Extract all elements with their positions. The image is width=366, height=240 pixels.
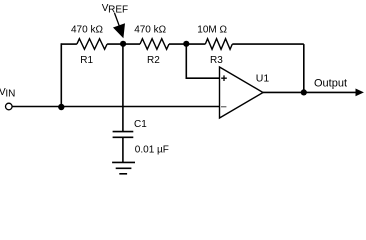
U1 designator label xyxy=(256,72,270,84)
R3 value label 10M Ohm xyxy=(197,24,227,35)
wire top rail left segment xyxy=(61,43,77,45)
capacitor C1 xyxy=(113,132,134,162)
node C junction VIN rail xyxy=(58,104,64,110)
wire output xyxy=(263,91,357,93)
R1 value label 470 kOhm xyxy=(71,24,103,35)
svg-text:Output: Output xyxy=(314,77,347,89)
svg-text:REF: REF xyxy=(108,5,128,16)
wire node B down to op-amp plus input xyxy=(186,43,219,78)
svg-text:IN: IN xyxy=(5,89,15,100)
svg-text:R2: R2 xyxy=(147,55,160,66)
C1 designator label xyxy=(134,119,147,130)
resistor R3 xyxy=(205,39,232,50)
wire R1 to R2 xyxy=(107,43,140,45)
svg-text:R3: R3 xyxy=(210,55,223,66)
R1 designator label xyxy=(80,55,93,66)
VREF pointer arrow xyxy=(113,13,125,38)
R2 designator label xyxy=(147,55,160,66)
R2 value label 470 kOhm xyxy=(134,24,166,35)
resistor R2 xyxy=(140,39,169,50)
label Output xyxy=(314,77,347,89)
node A junction R1-R2 (VREF node) xyxy=(120,41,126,47)
svg-text:R1: R1 xyxy=(80,55,93,66)
svg-text:10M Ω: 10M Ω xyxy=(197,24,227,35)
ground xyxy=(112,162,135,173)
resistor R1 xyxy=(77,39,107,50)
wire feedback vertical xyxy=(303,44,305,92)
wire middle vertical to C1 xyxy=(122,43,124,131)
svg-text:U1: U1 xyxy=(256,72,270,84)
wire VIN rail xyxy=(12,106,219,108)
input terminal VIN circle xyxy=(6,103,13,110)
output arrowhead xyxy=(356,89,364,97)
wire R2 to R3 xyxy=(169,43,205,45)
C1 value label 0.01 uF xyxy=(135,145,169,156)
svg-text:C1: C1 xyxy=(134,119,147,130)
node B junction R2-R3 xyxy=(183,41,189,47)
svg-text:470 kΩ: 470 kΩ xyxy=(134,24,166,35)
label VIN xyxy=(0,87,15,100)
svg-text:470 kΩ: 470 kΩ xyxy=(71,24,103,35)
op-amp U1 xyxy=(220,67,264,118)
label VREF xyxy=(102,3,128,16)
svg-text:0.01 µF: 0.01 µF xyxy=(135,145,169,156)
R3 designator label xyxy=(210,55,223,66)
wire left vertical xyxy=(60,43,62,106)
wire R3 to feedback corner xyxy=(232,43,303,45)
node D junction output feedback xyxy=(301,89,307,95)
